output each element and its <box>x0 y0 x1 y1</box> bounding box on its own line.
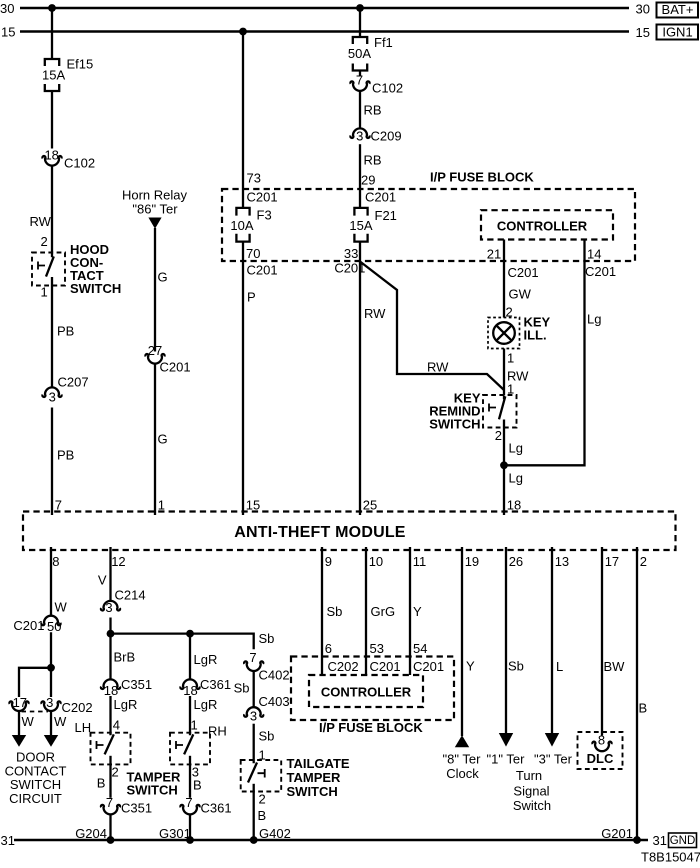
junction V/BrB <box>107 630 115 638</box>
svg-text:1: 1 <box>191 718 198 733</box>
svg-text:Lg: Lg <box>509 441 523 456</box>
connector C351 pin 7 <box>101 795 152 816</box>
svg-text:10: 10 <box>369 554 383 569</box>
wire pin 21 controller to key illumination, labels C201 GW <box>503 240 505 318</box>
wire col4 C209 to fuse F21, label RB <box>359 144 361 208</box>
svg-text:29: 29 <box>361 173 375 188</box>
svg-text:G201: G201 <box>601 826 633 841</box>
controller box (bottom) <box>309 675 423 707</box>
svg-text:RW: RW <box>427 360 449 375</box>
svg-text:Sb: Sb <box>259 729 275 744</box>
wire C201-50 to junction <box>50 632 52 697</box>
svg-text:G301: G301 <box>159 826 191 841</box>
svg-text:C102: C102 <box>372 81 403 96</box>
svg-text:B: B <box>639 701 648 716</box>
connector C207 pin 3 <box>42 375 88 405</box>
tailgate tamper switch <box>241 756 350 799</box>
svg-text:C403: C403 <box>259 694 290 709</box>
svg-text:G: G <box>158 432 168 447</box>
svg-text:7: 7 <box>356 73 363 88</box>
svg-text:50A: 50A <box>348 46 371 61</box>
svg-text:DLC: DLC <box>587 751 614 766</box>
svg-text:Lg: Lg <box>509 471 523 486</box>
wire stub Ff1 to C102 <box>359 71 361 76</box>
connector C403 pin 3 <box>244 694 289 724</box>
wire col1 C207 to module pin 7, label PB <box>51 408 53 516</box>
svg-text:8: 8 <box>52 554 59 569</box>
svg-text:Sb: Sb <box>508 659 524 674</box>
svg-text:50: 50 <box>47 619 61 634</box>
connector C202 pin 17 <box>9 695 28 711</box>
svg-text:T8B15047: T8B15047 <box>641 850 700 865</box>
svg-text:C209: C209 <box>371 129 402 144</box>
svg-text:C351: C351 <box>121 801 152 816</box>
svg-text:RW: RW <box>30 214 52 229</box>
tamper switch LH <box>91 732 131 764</box>
svg-text:L: L <box>556 659 563 674</box>
svg-text:GW: GW <box>509 287 532 302</box>
wire LH switch to C351-7, label B <box>109 756 111 798</box>
svg-text:9: 9 <box>325 554 332 569</box>
arrow to door contact switch circuit (right) <box>44 735 58 747</box>
svg-text:PB: PB <box>57 324 74 339</box>
svg-text:F21: F21 <box>375 208 397 223</box>
svg-text:V: V <box>98 573 107 588</box>
wire module pin 9 to controller, labels Sb 6 <box>321 547 323 675</box>
junction col1/bus30 <box>48 4 56 12</box>
svg-text:DOOR: DOOR <box>16 750 55 765</box>
wire junction horizontal to Sb bend <box>111 634 254 650</box>
svg-text:27: 27 <box>148 343 162 358</box>
svg-text:B: B <box>193 778 202 793</box>
junction W <box>47 664 55 672</box>
svg-text:C214: C214 <box>115 588 146 603</box>
svg-text:14: 14 <box>587 247 601 262</box>
svg-text:C201: C201 <box>370 659 401 674</box>
connector C361 pin 7 <box>180 795 231 816</box>
svg-text:15A: 15A <box>42 68 65 83</box>
svg-text:B: B <box>97 776 106 791</box>
svg-text:73: 73 <box>247 171 261 186</box>
connector C102 pin 7 <box>350 73 403 96</box>
svg-text:7: 7 <box>106 795 113 810</box>
horn relay 86 terminal arrow <box>122 188 188 229</box>
svg-text:Lg: Lg <box>587 312 601 327</box>
svg-text:3: 3 <box>250 709 257 724</box>
svg-text:W: W <box>55 600 68 615</box>
connector C209 pin 3 <box>350 128 401 143</box>
svg-text:Turn: Turn <box>516 768 542 783</box>
fuse Ff1 50A <box>348 35 393 71</box>
wire module pin 2 to ground bus, label B <box>636 547 638 840</box>
svg-text:SWITCH: SWITCH <box>429 417 480 432</box>
svg-text:2: 2 <box>640 554 647 569</box>
svg-text:G: G <box>158 270 168 285</box>
svg-text:"86" Ter: "86" Ter <box>132 202 178 217</box>
connector C102 pin 18 <box>42 148 95 171</box>
svg-text:"8" Ter: "8" Ter <box>443 751 482 766</box>
wire col1 bus30 to fuse Ef15 <box>51 8 53 59</box>
wire C351-7 to ground bus <box>109 814 111 840</box>
svg-text:C201: C201 <box>13 618 44 633</box>
svg-text:C361: C361 <box>201 801 232 816</box>
wire module pin 26 to turn signal switch, label Sb <box>505 547 507 734</box>
wire col4 bus30 to fuse Ff1 <box>359 8 361 37</box>
wire junction to C361, label LgR <box>189 634 191 680</box>
wire col1 hood switch to C207, label PB <box>51 277 53 387</box>
wire RW branch from node 33 to key remind switch <box>360 262 504 391</box>
svg-text:C201: C201 <box>247 190 278 205</box>
svg-text:13: 13 <box>555 554 569 569</box>
svg-text:Y: Y <box>413 604 422 619</box>
svg-text:SWITCH: SWITCH <box>127 783 178 798</box>
svg-text:12: 12 <box>111 554 125 569</box>
wire C402 to C403, label Sb <box>253 671 255 707</box>
svg-text:CONTROLLER: CONTROLLER <box>497 219 588 234</box>
svg-text:GrG: GrG <box>371 604 396 619</box>
svg-text:SWITCH: SWITCH <box>70 281 121 296</box>
svg-text:P: P <box>247 290 256 305</box>
svg-text:Sb: Sb <box>259 631 275 646</box>
svg-text:3: 3 <box>49 390 56 405</box>
svg-text:ILL.: ILL. <box>524 328 547 343</box>
bus 30 <box>20 7 629 9</box>
svg-text:LgR: LgR <box>194 652 218 667</box>
svg-text:C201: C201 <box>585 264 616 279</box>
wire module pin 12 to C214, label V <box>109 547 111 601</box>
svg-text:RW: RW <box>364 306 386 321</box>
wire C202-3 to arrow, label W <box>50 711 52 736</box>
svg-text:18: 18 <box>183 683 197 698</box>
wire tailgate switch to ground bus, label B <box>253 784 255 840</box>
wire key remind switch to module pin 18, labels Lg <box>503 420 505 516</box>
svg-text:GND: GND <box>670 835 696 847</box>
tamper switch text <box>127 770 182 798</box>
svg-text:30: 30 <box>636 2 650 17</box>
svg-text:2: 2 <box>259 792 266 807</box>
svg-text:CIRCUIT: CIRCUIT <box>9 791 62 806</box>
svg-text:C351: C351 <box>121 677 152 692</box>
svg-text:"1" Ter: "1" Ter <box>487 751 526 766</box>
svg-text:TAMPER: TAMPER <box>287 770 342 785</box>
svg-text:Horn Relay: Horn Relay <box>122 188 188 203</box>
ground G301 <box>186 836 194 844</box>
ground G204 <box>107 836 115 844</box>
svg-text:7: 7 <box>55 498 62 513</box>
anti-theft module box <box>23 512 676 551</box>
svg-text:ANTI-THEFT MODULE: ANTI-THEFT MODULE <box>234 524 406 541</box>
svg-text:TAILGATE: TAILGATE <box>287 756 350 771</box>
svg-text:C102: C102 <box>64 156 95 171</box>
wire C361-7 to ground bus <box>189 814 191 840</box>
svg-text:31: 31 <box>1 833 15 848</box>
svg-text:6: 6 <box>325 641 332 656</box>
svg-text:2: 2 <box>41 234 48 249</box>
wire C202-17 to arrow, label W <box>18 711 20 736</box>
fuse F3 10A <box>230 208 271 242</box>
arrow to door contact switch circuit (left) <box>12 735 26 747</box>
wire branch left to C202 pin 17 <box>19 668 51 697</box>
IGN1 terminal box <box>657 25 699 40</box>
connector C402 pin 7 <box>244 650 289 683</box>
wire module pin 10 to controller, labels GrG 53 <box>365 547 367 675</box>
svg-text:Ef15: Ef15 <box>67 57 94 72</box>
wire col4 C102 to C209, label RB <box>359 91 361 128</box>
svg-text:BrB: BrB <box>114 650 136 665</box>
svg-text:C201: C201 <box>160 360 191 375</box>
wire module pin 13 to turn signal switch, label L <box>551 547 553 734</box>
svg-text:C202: C202 <box>62 700 93 715</box>
svg-text:CONTACT: CONTACT <box>5 763 67 778</box>
wire module pin 19 to clock, label Y <box>461 547 463 736</box>
wire module pin 11 to controller, labels Y 54 <box>409 547 411 675</box>
GND terminal box <box>669 833 697 848</box>
wire col2 C201 to module pin 1, label G <box>154 364 156 515</box>
svg-text:C201: C201 <box>365 190 396 205</box>
wire C403 to tailgate switch, label Sb <box>253 724 255 760</box>
svg-text:BW: BW <box>604 659 626 674</box>
svg-text:33: 33 <box>344 246 358 261</box>
svg-text:I/P FUSE BLOCK: I/P FUSE BLOCK <box>430 170 534 185</box>
svg-text:"3" Ter: "3" Ter <box>534 751 573 766</box>
svg-text:26: 26 <box>509 554 523 569</box>
wire lamp to key remind switch, label RW <box>503 349 505 396</box>
svg-text:Sb: Sb <box>327 604 343 619</box>
svg-text:54: 54 <box>413 641 427 656</box>
svg-text:Switch: Switch <box>513 798 551 813</box>
svg-text:G204: G204 <box>75 826 107 841</box>
ground G201 <box>633 836 641 844</box>
wire col4 F21 to module pin 25, label RW <box>359 242 361 515</box>
svg-text:18: 18 <box>507 498 521 513</box>
junction LgR <box>186 630 194 638</box>
svg-text:7: 7 <box>185 795 192 810</box>
wire module pin 17 to DLC, label BW <box>601 547 603 736</box>
svg-text:C207: C207 <box>58 375 89 390</box>
svg-text:1: 1 <box>41 285 48 300</box>
svg-text:Ff1: Ff1 <box>374 35 393 50</box>
svg-text:2: 2 <box>495 428 502 443</box>
svg-text:LgR: LgR <box>114 697 138 712</box>
junction col4/bus30 <box>356 4 364 12</box>
connector C361 pin 18 <box>180 677 231 698</box>
wire module pin 8 to C201, label W <box>50 547 52 616</box>
svg-text:IGN1: IGN1 <box>662 25 692 40</box>
wire C361 to RH tamper switch, label LgR <box>189 696 191 732</box>
connector C214 pin 3 <box>101 588 146 616</box>
wire col3 F3 to module pin 15, label P <box>242 242 244 515</box>
wire col1 C102 to hood switch, label RW <box>51 166 53 253</box>
svg-text:3: 3 <box>46 695 53 710</box>
wire C214 to junction <box>109 618 111 680</box>
svg-text:C361: C361 <box>200 677 231 692</box>
svg-text:C201: C201 <box>413 659 444 674</box>
I/P fuse block (bottom) <box>291 657 454 721</box>
wire pin 14 controller to Lg junction, labels C201 Lg <box>504 240 585 466</box>
svg-text:15: 15 <box>246 498 260 513</box>
svg-text:Clock: Clock <box>446 766 479 781</box>
hood contact switch SW1 <box>32 242 121 296</box>
svg-text:Sb: Sb <box>234 681 250 696</box>
svg-text:C402: C402 <box>259 668 290 683</box>
wire col3 bus15 to fuse F3 <box>242 32 244 208</box>
svg-text:4: 4 <box>113 718 120 733</box>
ground G402 <box>250 836 258 844</box>
svg-text:53: 53 <box>370 641 384 656</box>
arrow from clock (up) <box>455 735 469 747</box>
svg-text:21: 21 <box>487 247 501 262</box>
svg-text:C201: C201 <box>508 265 539 280</box>
svg-text:LH: LH <box>75 720 92 735</box>
wire col2 horn relay to C201, label G <box>154 228 156 352</box>
connector C201 pin 27 <box>145 343 190 375</box>
svg-text:31: 31 <box>653 833 667 848</box>
svg-text:C201: C201 <box>247 263 278 278</box>
svg-text:Y: Y <box>466 659 475 674</box>
svg-text:15: 15 <box>636 25 650 40</box>
junction Lg <box>500 461 508 469</box>
svg-text:2: 2 <box>112 765 119 780</box>
svg-text:G402: G402 <box>259 826 291 841</box>
svg-text:17: 17 <box>605 554 619 569</box>
svg-text:W: W <box>22 714 35 729</box>
svg-text:1: 1 <box>158 498 165 513</box>
svg-text:PB: PB <box>57 448 74 463</box>
svg-text:SWITCH: SWITCH <box>287 784 338 799</box>
bus 15 <box>20 30 629 32</box>
arrow to "3" Ter (down) <box>545 733 559 747</box>
svg-text:BAT+: BAT+ <box>662 2 694 17</box>
svg-text:W: W <box>54 714 67 729</box>
svg-text:RB: RB <box>364 103 382 118</box>
DLC connector <box>578 732 623 769</box>
svg-text:25: 25 <box>363 498 377 513</box>
connector C202 pin 3 <box>22 695 93 715</box>
svg-text:B: B <box>258 808 267 823</box>
fuse Ef15 15A <box>42 57 93 92</box>
BAT+ terminal box <box>657 3 699 18</box>
svg-text:7: 7 <box>249 650 256 665</box>
svg-text:3: 3 <box>105 600 112 615</box>
svg-text:3: 3 <box>356 129 363 144</box>
svg-text:70: 70 <box>246 246 260 261</box>
svg-text:18: 18 <box>104 683 118 698</box>
svg-text:I/P FUSE BLOCK: I/P FUSE BLOCK <box>319 720 423 735</box>
svg-text:CONTROLLER: CONTROLLER <box>321 685 412 700</box>
svg-text:Signal: Signal <box>513 783 549 798</box>
key illumination lamp <box>488 315 551 349</box>
svg-text:C202: C202 <box>328 659 359 674</box>
tamper switch RH <box>170 732 210 764</box>
svg-text:LgR: LgR <box>194 697 218 712</box>
wire col1 fuse to C102 <box>51 91 53 149</box>
key remind switch SW2 <box>429 391 516 432</box>
fuse F21 15A <box>349 208 396 242</box>
junction col3/bus15 <box>239 28 247 36</box>
svg-text:8: 8 <box>598 733 605 748</box>
svg-text:30: 30 <box>0 1 14 16</box>
wire RH switch to C361-7, label B <box>189 756 191 798</box>
svg-text:SWITCH: SWITCH <box>10 777 61 792</box>
turn signal switch text <box>513 768 551 813</box>
svg-text:15: 15 <box>1 25 15 40</box>
wire C351 to LH tamper switch, label LgR <box>109 696 111 732</box>
svg-text:RB: RB <box>364 153 382 168</box>
connector C351 pin 18 <box>101 677 152 698</box>
svg-text:15A: 15A <box>349 218 372 233</box>
bus 31 ground <box>14 839 648 841</box>
svg-text:1: 1 <box>507 351 514 366</box>
svg-text:19: 19 <box>465 554 479 569</box>
svg-text:18: 18 <box>44 148 58 163</box>
connector C201 pin 50 <box>13 616 61 634</box>
controller box (I/P fuse block top) <box>481 210 613 239</box>
svg-text:10A: 10A <box>230 218 253 233</box>
svg-text:11: 11 <box>413 554 427 569</box>
svg-text:F3: F3 <box>257 208 272 223</box>
arrow to "1" Ter (down) <box>499 733 513 747</box>
door contact switch circuit text <box>5 750 67 806</box>
I/P fuse block (top) <box>222 189 635 261</box>
